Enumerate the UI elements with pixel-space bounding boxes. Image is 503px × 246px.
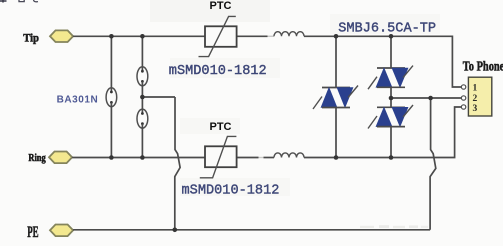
label Tip <box>23 33 39 45</box>
wire branch x=111 lower <box>110 103 112 158</box>
inductor L2 <box>274 153 304 158</box>
cropped text fragment 2 (top-left open box) <box>19 0 24 2</box>
wire TVS D1 column upper <box>335 36 337 87</box>
wire TVS D3 column lower <box>390 127 392 158</box>
cropped text fragment 1 (top-left) <box>0 0 7 3</box>
svg-text:Ring: Ring <box>28 153 45 164</box>
PTC RT2 body <box>205 146 237 167</box>
svg-text:3: 3 <box>473 104 478 114</box>
wire center-tap horizontal <box>142 96 175 98</box>
wire Ring line middle segment <box>237 157 275 159</box>
label BA301N <box>57 95 99 106</box>
svg-text:mSMD010-1812: mSMD010-1812 <box>169 64 267 79</box>
wire branch x=142 top <box>141 36 143 71</box>
svg-text:BA301N: BA301N <box>57 95 99 106</box>
svg-text:PTC: PTC <box>210 121 232 133</box>
label To Phone <box>463 59 503 74</box>
PTC RT2 slash <box>200 136 237 177</box>
svg-text:1: 1 <box>473 83 478 93</box>
port Tip (yellow hexagon) <box>50 30 73 42</box>
svg-text:2: 2 <box>473 94 478 104</box>
wire TVS mid tap to pin2 <box>391 97 461 99</box>
TVS D2 (bidirectional) <box>368 66 413 90</box>
label PE <box>27 224 38 241</box>
svg-text:Tip: Tip <box>23 33 39 45</box>
wire TVS D1 column lower <box>335 108 337 158</box>
wire Tip line left segment <box>73 35 205 37</box>
port PE (yellow hexagon) <box>50 225 73 237</box>
gas tube G1b electrode dots <box>141 70 144 83</box>
svg-text:PTC: PTC <box>210 0 232 12</box>
wire branch x=142 bottom <box>141 124 143 158</box>
wire Ring line right segment to pin3 <box>304 107 461 158</box>
wire right vertical with hop to PE <box>430 98 436 230</box>
wire center-tap vertical with hop over Ring line <box>175 97 180 230</box>
watermark ghost on PE line <box>360 225 428 228</box>
wire branch x=142 middle <box>141 82 143 114</box>
svg-text:PE: PE <box>27 224 38 241</box>
wire Tip line middle segment (PTC1 to coil) <box>237 35 274 37</box>
wire PE line <box>73 229 430 231</box>
wire TVS column middle <box>390 87 392 107</box>
wire branch x=111 upper <box>110 36 112 92</box>
connector J1 body <box>468 77 491 116</box>
gas tube G1c electrode dots <box>141 112 144 125</box>
TVS D1 (bidirectional) <box>313 86 358 110</box>
connector J1 pin numbers <box>473 83 478 114</box>
label mSMD010-1812 (top) <box>169 64 267 79</box>
connector J1 pin circles <box>461 85 465 109</box>
PTC RT1 slash <box>199 16 236 56</box>
PTC RT1 body <box>205 26 237 47</box>
svg-text:SMBJ6.5CA-TP: SMBJ6.5CA-TP <box>338 21 436 36</box>
wire Tip line right segment to pin1 <box>304 36 461 87</box>
label PTC (top) <box>210 0 232 12</box>
cropped text fragment 3 (top-left hook) <box>34 0 39 2</box>
inductor L1 <box>274 32 304 37</box>
gas tube G1b envelope <box>137 67 148 86</box>
svg-text:mSMD010-1812: mSMD010-1812 <box>182 184 280 199</box>
label SMBJ6.5CA-TP <box>338 21 436 36</box>
gas tube G1a envelope <box>106 88 117 107</box>
wire Ring line left segment <box>72 157 205 159</box>
TVS D3 (bidirectional) <box>368 105 413 129</box>
faint background smudges <box>150 0 440 196</box>
label mSMD010-1812 (bottom) <box>182 184 280 199</box>
svg-text:To Phone: To Phone <box>463 59 503 74</box>
label Ring <box>28 153 45 164</box>
gas tube G1c envelope <box>137 109 148 128</box>
label PTC (bottom) <box>210 121 232 133</box>
gas tube G1a electrode dots <box>110 91 113 104</box>
wire TVS D2 column upper <box>390 36 392 68</box>
port Ring (yellow hexagon) <box>49 152 72 164</box>
